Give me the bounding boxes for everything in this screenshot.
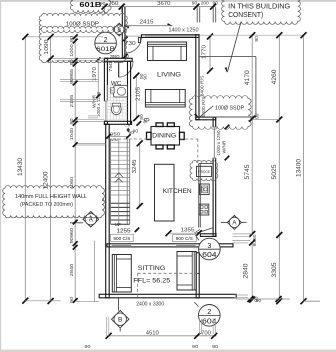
kitchen east wall upper jog (196, 117, 216, 120)
svg-text:1400 x 1250: 1400 x 1250 (169, 27, 199, 33)
svg-text:12400: 12400 (43, 171, 50, 190)
living label (157, 72, 181, 79)
svg-text:960: 960 (69, 227, 75, 237)
svg-text:DINING: DINING (152, 133, 176, 140)
svg-text:2105: 2105 (69, 94, 75, 107)
svg-text:100Ø SSDP: 100Ø SSDP (66, 22, 99, 28)
sitting top wall opening left (112, 245, 132, 247)
sofa 2 (145, 90, 185, 108)
svg-text:3305: 3305 (271, 262, 278, 278)
svg-text:601B: 601B (79, 0, 101, 9)
cloud fridge (190, 160, 218, 180)
small ellipse (145, 119, 150, 122)
kitchen window ticks (225, 125, 230, 161)
wc west window (104, 101, 108, 121)
dim 90 top-right-a (192, 0, 198, 5)
dim 90 br (212, 344, 218, 350)
dim 4510 (146, 331, 159, 337)
svg-text:IN THIS BUILDING: IN THIS BUILDING (228, 3, 290, 10)
consent leader (225, 22, 241, 73)
wc window stubs top (60, 80, 98, 82)
sitting sofa right (177, 252, 196, 291)
left bottom stubs (25, 300, 99, 303)
label WM (110, 137, 118, 142)
dash sitting h (138, 272, 200, 274)
oven box (200, 184, 210, 195)
svg-text:90: 90 (85, 344, 91, 350)
svg-text:1000: 1000 (69, 44, 75, 57)
svg-text:1400 R/S: 1400 R/S (201, 97, 206, 118)
svg-text:200: 200 (201, 0, 209, 6)
label 900 CS kitchen (172, 235, 196, 243)
svg-text:90: 90 (252, 234, 257, 240)
label 900 CS stairs (111, 234, 134, 242)
dim 4260 (271, 69, 278, 85)
dim line 2415 (124, 23, 173, 28)
svg-text:3: 3 (207, 241, 211, 250)
bench front (199, 164, 213, 228)
right ext top (200, 34, 305, 36)
label 1400 x 1250 (169, 27, 199, 33)
section A left (70, 212, 99, 228)
dim 90 L3 y39 (69, 36, 75, 43)
svg-text:90: 90 (69, 237, 75, 244)
svg-text:90: 90 (254, 36, 259, 42)
dim 750 (108, 1, 118, 7)
svg-text:90: 90 (69, 59, 75, 66)
svg-text:C.A: C.A (124, 123, 130, 127)
gate post left (197, 7, 200, 22)
svg-text:90: 90 (213, 0, 219, 5)
svg-text:750: 750 (108, 1, 118, 7)
dim line 1970 (96, 57, 100, 98)
page left border (0, 0, 2, 352)
dim 13430 (17, 157, 24, 176)
cloud 100 ssdp left (39, 13, 127, 32)
dim 12400 (43, 171, 50, 190)
svg-text:4510: 4510 (146, 331, 159, 337)
dim 90 L3 y300 (69, 297, 75, 304)
label 1255 (117, 228, 140, 235)
dim 950 (110, 131, 120, 137)
sofa 1 (148, 42, 187, 61)
svg-text:A: A (232, 221, 236, 227)
601B text (79, 0, 101, 9)
top dimension line (102, 4, 217, 10)
dim 90 living (142, 74, 147, 80)
svg-text:4260: 4260 (271, 69, 278, 85)
ssdp right leader (194, 106, 213, 118)
section A right (221, 215, 247, 229)
svg-text:90: 90 (255, 113, 260, 119)
dim 4170 (244, 70, 251, 86)
dim 2105 L3 y101 (69, 94, 75, 107)
dim 90 top-left (100, 1, 106, 6)
left dim line L3 (73, 34, 78, 303)
dash dining left (108, 138, 151, 140)
svg-text:2840: 2840 (243, 263, 250, 279)
dining label (152, 133, 176, 140)
dim 90 rA1 (254, 36, 259, 42)
dim 90 rA2 (255, 113, 260, 119)
svg-text:5025: 5025 (271, 164, 278, 180)
wc door arc (119, 61, 133, 77)
cloud 100 ssdp right (189, 96, 251, 130)
wc bottom wall (104, 121, 131, 124)
cloud 601B (70, 0, 111, 13)
right dim line B (276, 32, 282, 304)
label 1000x1200 (96, 92, 101, 117)
kitchen label (163, 188, 192, 195)
section B top (113, 23, 126, 36)
right bottom ticks (236, 296, 290, 302)
bottom ext right (213, 319, 215, 335)
dim 2840 right (243, 263, 250, 279)
svg-text:700: 700 (201, 330, 211, 336)
dim 1355 (181, 227, 195, 233)
svg-text:900 C/S: 900 C/S (176, 236, 193, 242)
dining table (151, 127, 180, 146)
kitchen bottom wall (200, 234, 216, 237)
dining chair 3 (156, 145, 163, 149)
gate post right (213, 7, 216, 22)
sitting top wall opening right (176, 245, 196, 247)
svg-text:1355: 1355 (181, 227, 195, 233)
living east wall (196, 35, 199, 120)
ssdp right text (215, 105, 244, 111)
svg-text:1090: 1090 (44, 40, 50, 55)
svg-text:W/NR: W/NR (221, 140, 226, 154)
callout 2/601B (95, 32, 117, 54)
bottom wall (99, 294, 236, 298)
svg-text:380: 380 (110, 54, 120, 60)
wc top wall (104, 58, 132, 61)
dim 90 wc-r-top (139, 73, 144, 79)
svg-text:1255: 1255 (117, 228, 131, 234)
svg-text:W/M: W/M (110, 137, 118, 142)
sitting east strip wall (196, 253, 199, 298)
page bottom band (0, 350, 336, 352)
dim 90 L3 y81 (69, 78, 75, 85)
dim 2105 wc (135, 87, 141, 101)
svg-text:2400 x 3300: 2400 x 3300 (136, 302, 164, 308)
svg-text:750: 750 (108, 62, 114, 72)
svg-text:5745: 5745 (244, 164, 251, 180)
l3 ext 120 (76, 120, 105, 122)
svg-text:1000 x 1250: 1000 x 1250 (216, 130, 221, 155)
label wnr (92, 94, 97, 108)
dim 90 rA5 (253, 296, 258, 302)
svg-text:90: 90 (69, 78, 75, 85)
callout 3/604 (196, 237, 220, 260)
left dim line L2 (48, 34, 54, 304)
cloud around callout (39, 26, 126, 62)
wc toilet (111, 103, 121, 115)
140mm text2 (20, 202, 73, 208)
living top wall (142, 35, 200, 38)
wc window stubs bottom (88, 116, 98, 118)
dim line 730 (123, 37, 127, 59)
dim 1770 (201, 45, 207, 59)
label wnr kitchen (221, 140, 226, 154)
svg-text:13430: 13430 (17, 157, 24, 176)
140mm text1 (15, 194, 87, 200)
tick drop 121 (121, 7, 123, 12)
dim 90 top-right-b (213, 0, 219, 5)
label 2400x3300 (136, 302, 164, 308)
svg-text:1040: 1040 (69, 127, 75, 140)
section B bottom (112, 298, 129, 332)
svg-text:(PACKED TO 200mm): (PACKED TO 200mm) (20, 202, 73, 208)
svg-text:140mm FULL HEIGHT WALL: 140mm FULL HEIGHT WALL (15, 194, 87, 200)
right ext 234 (233, 234, 253, 236)
dash sitting v (137, 273, 139, 298)
wc door leaf (118, 61, 120, 77)
dim 4060 L3 y183 (69, 176, 75, 189)
dim 90 950 (128, 130, 134, 135)
hob box (199, 204, 209, 215)
svg-text:3670: 3670 (157, 1, 170, 7)
dining chair 6 (180, 132, 185, 139)
dim 730 (125, 41, 136, 47)
dim line 950 (106, 134, 130, 138)
dim 90 L3 y121 (69, 118, 75, 125)
label 1000x1250 (216, 130, 221, 155)
dim 380 (110, 54, 120, 60)
svg-text:2: 2 (207, 307, 211, 316)
dim line 3245 (137, 140, 143, 209)
bottom ext left (107, 317, 109, 336)
bottom ext mid (200, 319, 202, 335)
label 1400 RS (201, 97, 206, 118)
svg-text:900 C/S: 900 C/S (113, 236, 130, 242)
dim 90 bm (192, 344, 198, 350)
svg-text:90: 90 (212, 344, 218, 350)
dim 90 bl (85, 344, 91, 350)
svg-text:B: B (118, 317, 123, 324)
svg-text:2840: 2840 (69, 263, 75, 276)
dim 90 dining-b (133, 121, 141, 133)
dim line 1770 (207, 34, 213, 74)
svg-text:SITTING: SITTING (138, 265, 166, 272)
wc tap box (111, 88, 115, 93)
dim 2415 text (140, 20, 154, 26)
entry east wall (122, 7, 125, 58)
svg-text:2: 2 (104, 37, 108, 44)
ffl label (133, 278, 170, 285)
svg-text:FRIDGE: FRIDGE (198, 170, 211, 174)
dining chair 1 (156, 123, 163, 127)
dim line 1355 (166, 230, 202, 236)
svg-text:4170: 4170 (244, 70, 251, 86)
tiny diamond dot (126, 128, 130, 133)
fridge box (197, 166, 212, 176)
right dim line A (249, 32, 255, 302)
dining chair 4 (167, 145, 174, 149)
kitchen east wall (213, 117, 216, 236)
svg-text:13400: 13400 (295, 158, 302, 177)
dim 5025 (271, 164, 278, 180)
front door leaf+arc (125, 36, 142, 54)
right ext 242 (233, 241, 251, 243)
living top wall window line (145, 35, 195, 37)
dash dining right (180, 138, 198, 140)
dim 1000 L3 y50 (69, 44, 75, 57)
dim 1090 (44, 40, 50, 55)
140mm leader (102, 200, 107, 203)
cloud 140mm wall (3, 186, 105, 218)
label 1970 (92, 67, 98, 81)
west thin line (94, 241, 96, 302)
cloud in-this-building (222, 0, 301, 24)
dim 90 wc-door (123, 54, 129, 59)
callout 2/604 (194, 302, 220, 326)
dim 90 wc-r-bot (139, 114, 144, 120)
svg-text:955: 955 (69, 68, 75, 78)
sitting label (138, 265, 166, 272)
dim 90 L3 y240 (69, 237, 75, 244)
svg-text:90: 90 (256, 298, 262, 303)
svg-text:90: 90 (252, 240, 257, 246)
svg-text:604: 604 (202, 317, 217, 326)
kitchen island (155, 164, 175, 221)
bench diagonal (194, 228, 213, 234)
svg-text:601B: 601B (96, 46, 116, 53)
svg-text:3245: 3245 (132, 160, 138, 174)
cloud text line2 (228, 12, 263, 19)
svg-text:90: 90 (133, 128, 139, 133)
sitting sofa left (112, 255, 131, 293)
dim 750 wc (108, 62, 114, 72)
dash kitchen vertical (197, 139, 199, 163)
dim 955 L3 y73 (69, 68, 75, 78)
svg-text:90: 90 (143, 118, 148, 124)
dim 3670 (157, 1, 170, 7)
left ext top (24, 36, 103, 38)
svg-text:CONSENT): CONSENT) (228, 12, 263, 19)
dim 5745 (244, 164, 251, 180)
label 2400 RS (200, 76, 205, 97)
dim 200 (201, 0, 209, 6)
right ext 296 (234, 295, 248, 298)
wc west wall (104, 58, 107, 124)
wc basin (114, 86, 128, 97)
dim 700 (201, 330, 211, 336)
sitting top wall (107, 244, 233, 247)
svg-text:FFL= 56.25: FFL= 56.25 (133, 278, 170, 285)
staircase (111, 139, 130, 226)
cloud text line1 (228, 3, 290, 10)
dim line 2105 wc (133, 73, 139, 122)
dim 3245 (132, 160, 138, 174)
wc window stubs mid (60, 100, 98, 102)
ssdp left text (66, 22, 99, 28)
svg-text:1000 x 1200: 1000 x 1200 (96, 92, 101, 117)
left dim line L1 (22, 34, 28, 304)
bottom dim line (106, 333, 218, 339)
dining chair 5 (147, 132, 152, 139)
dim 3305 (271, 262, 278, 278)
wc east wall (128, 61, 131, 124)
stairs west wall (106, 124, 110, 298)
kitchen east window (213, 127, 216, 158)
svg-text:LIVING: LIVING (157, 72, 181, 79)
strip wall junction tick (196, 273, 200, 275)
dim 960 L3 y232 (69, 227, 75, 237)
tiny CA label (124, 123, 130, 127)
svg-text:1970: 1970 (92, 67, 98, 81)
dim 2840 L3 y270 (69, 263, 75, 276)
page top border (0, 0, 336, 2)
svg-text:KITCHEN: KITCHEN (163, 188, 192, 195)
wc label (111, 81, 122, 87)
svg-text:UP: UP (115, 222, 121, 227)
svg-text:2105: 2105 (135, 87, 141, 101)
dim 90 rA3 (252, 234, 257, 240)
svg-text:100Ø SSDP: 100Ø SSDP (215, 105, 244, 111)
right dim line C (301, 32, 321, 304)
svg-text:90: 90 (192, 0, 198, 5)
stairs up label (115, 222, 121, 227)
svg-text:90: 90 (192, 344, 198, 350)
svg-text:90: 90 (69, 36, 75, 43)
door jamb return (138, 37, 140, 42)
dim 90 bottom-right (256, 298, 262, 303)
svg-text:90: 90 (69, 118, 75, 125)
dim 90 dining-a (143, 118, 148, 124)
wc tile grid (107, 85, 127, 121)
right stub 119 (252, 119, 279, 121)
dining chair 2 (167, 123, 174, 127)
svg-text:90: 90 (142, 74, 147, 80)
svg-text:90: 90 (69, 297, 75, 304)
svg-text:2415: 2415 (140, 20, 154, 26)
l3 ext 58 (48, 59, 104, 61)
l3 ext 144 (76, 144, 106, 145)
svg-text:604: 604 (202, 250, 217, 259)
dim 13400 (295, 158, 302, 177)
dim 1040 L3 y134 (69, 127, 75, 140)
deck outline (199, 57, 256, 117)
tick drop 104 (104, 7, 106, 14)
dim 90 rA4 (252, 240, 257, 246)
svg-text:2400 R/S: 2400 R/S (200, 76, 205, 97)
dim 90 L3 y62 (69, 59, 75, 66)
